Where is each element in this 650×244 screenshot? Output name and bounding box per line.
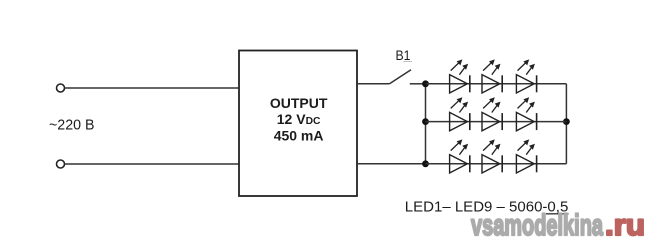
power supply module (AC/DC driver) xyxy=(239,51,357,197)
LED LED9 xyxy=(516,139,536,173)
row 2 wire xyxy=(426,121,567,123)
junction node middle-left xyxy=(422,118,429,125)
svg-text:vsamodelkina: vsamodelkina xyxy=(471,209,603,242)
terminal T1 (top left input) xyxy=(57,84,65,92)
wire from box to switch B1 xyxy=(357,83,390,85)
LED LED7 xyxy=(450,139,470,173)
right bus wire xyxy=(565,84,567,164)
junction node bottom-left xyxy=(422,160,429,167)
LED LED6 xyxy=(516,97,536,131)
svg-text:450 mA: 450 mA xyxy=(274,128,324,144)
LED LED5 xyxy=(482,97,502,131)
svg-text:B1: B1 xyxy=(396,47,411,63)
svg-text:~220 В: ~220 В xyxy=(49,118,95,134)
row 3 wire xyxy=(426,163,567,165)
svg-text:.ru: .ru xyxy=(605,209,645,242)
underline under 0,5 xyxy=(546,213,569,215)
switch B1 blade xyxy=(390,70,412,84)
LED LED4 xyxy=(450,97,470,131)
wire from T1 to power supply box xyxy=(65,87,239,89)
LED LED2 xyxy=(482,59,502,93)
wire from box bottom output to LED matrix xyxy=(357,163,426,165)
underline under B1 xyxy=(404,61,413,63)
wire from T2 to power supply box xyxy=(65,163,239,165)
LED LED3 xyxy=(516,59,536,93)
switch B1 right lead xyxy=(410,83,426,85)
svg-text:OUTPUT: OUTPUT xyxy=(270,95,328,111)
junction node top-left xyxy=(422,80,429,87)
terminal T2 (bottom left input) xyxy=(57,160,65,168)
LED LED1 xyxy=(450,59,470,93)
LED LED8 xyxy=(482,139,502,173)
junction node middle-right xyxy=(563,118,570,125)
row 1 wire xyxy=(426,83,567,85)
left bus wire xyxy=(425,84,427,164)
